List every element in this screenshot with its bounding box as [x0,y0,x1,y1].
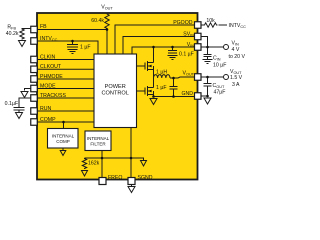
svg-text:POWER: POWER [105,84,126,90]
wire TRACK/SS external [19,98,31,107]
transistor Q2 bottom MOSFET [137,90,146,92]
svg-text:60.4k: 60.4k [91,18,104,24]
pin GND [195,93,202,100]
wire COMP to internal comp box [63,122,65,129]
pin SGND [128,178,135,185]
node: GND 1uF junction [172,95,175,98]
wire FB node down to power control [106,30,108,55]
wire COMP [34,121,94,123]
svg-text:RFB: RFB [7,25,16,31]
terminal VIN [224,45,229,50]
node: COUT gnd junction [206,95,209,98]
ground triangle below 162k [82,171,88,177]
svg-text:0.1 µF: 0.1 µF [179,51,194,57]
node: COMP junction [62,121,65,124]
ground triangle below RFB [19,41,26,47]
pin COMP [31,119,38,126]
svg-text:RUN: RUN [40,106,51,112]
ground triangle below internal comp [60,151,66,156]
svg-text:MODE: MODE [40,83,56,89]
IC body U1 (uModule regulator) [37,13,198,180]
wire PGOOD internal [115,25,197,54]
node A: FB divider junction [106,28,109,31]
svg-text:1 µH: 1 µH [156,70,167,76]
svg-text:CLKOUT: CLKOUT [40,64,62,70]
svg-text:VOUT: VOUT [101,5,113,11]
svg-text:1 µF: 1 µF [80,44,90,50]
transistor Q1 top MOSFET [137,65,146,67]
wire FB pin to node [34,29,107,31]
wire FREQ vertical [101,151,103,178]
svg-text:COMP: COMP [56,139,70,144]
svg-text:47µF: 47µF [214,90,226,96]
pin PGOOD [195,22,202,29]
pin RUN [31,108,38,115]
svg-text:INTERNAL: INTERNAL [87,136,110,141]
ground earth (INTVCC cap) [68,50,78,54]
svg-text:INTVCC: INTVCC [229,23,247,29]
ground triangle below track cap [16,113,23,119]
wire VIN external [201,46,223,48]
resistor 60.4k (FB top divider) [105,13,109,30]
wire MODE [34,88,94,90]
svg-text:CLKIN: CLKIN [40,54,56,60]
wire VOUT external [201,76,223,78]
transistor Q1 body arrow [148,65,152,68]
svg-text:10 µF: 10 µF [213,63,226,69]
node: VIN 0.1uF junction [171,46,174,49]
svg-text:FB: FB [40,24,47,30]
wire INTVCC pin to corner [34,41,98,54]
wire VIN internal [132,47,197,54]
svg-text:GND: GND [181,91,193,97]
wire CLKOUT [34,68,94,70]
svg-text:3 A: 3 A [232,82,240,88]
resistor 10k pull-up [204,23,218,27]
svg-text:COUT: COUT [213,83,225,89]
wire GND rail internal [154,96,198,98]
transistor Q2 body arrow [148,90,152,93]
ground earth (internal 0.1uF) [168,56,178,60]
svg-text:FILTER: FILTER [90,142,106,147]
resistor 162k (freq set) [82,158,86,169]
resistor RFB 40.2k [20,29,31,40]
internal filter block [85,131,111,151]
inductor L1 1uH [154,75,171,78]
pin CLKIN [31,56,38,63]
wire RUN [34,110,94,112]
svg-text:COMP: COMP [40,117,56,123]
node: INTVCC cap junction [71,40,74,43]
svg-text:10k: 10k [206,18,215,24]
wire inductor to VOUT pin [170,77,197,78]
capacitor 1uF (output, internal) [173,78,175,86]
svg-text:4 V: 4 V [232,47,240,53]
ground triangle (COUT/GND) [204,98,211,104]
svg-text:SGND: SGND [138,175,153,181]
wire 10k to INTVCC label [219,24,228,26]
pin FB [31,26,38,33]
wire SGND vertical [130,128,132,178]
svg-text:1.5 V: 1.5 V [230,75,243,81]
pin FREQ [99,178,106,185]
wire SVIN internal [123,37,197,55]
capacitor COUT [207,77,209,83]
svg-text:CONTROL: CONTROL [102,91,129,97]
wire PHMODE [34,78,94,80]
svg-text:PGOOD: PGOOD [173,20,193,26]
node: COUT junction [206,76,209,79]
node: sgnd junction [130,157,133,160]
wire SGND external stub [131,184,133,186]
terminal VOUT [224,75,229,80]
ground triangle internal SGND [141,161,147,167]
node: VIN/FET drain junction [152,46,155,49]
wire SGND branch to internal ground [131,158,144,160]
svg-text:1 µF: 1 µF [156,85,166,91]
svg-text:TRACK/SS: TRACK/SS [40,93,66,99]
pin TRACK/SS [31,95,38,102]
wire CLKIN [34,59,94,61]
svg-text:0.1µF: 0.1µF [5,101,18,107]
pin CLKOUT [31,66,38,73]
power control block [94,54,137,128]
svg-text:VIN: VIN [232,41,240,47]
capacitor CIN [207,47,209,54]
capacitor 1uF (INTVCC bypass) [72,41,74,44]
pin SVIN [195,33,202,40]
wire SVIN external jog [201,37,208,48]
ground triangle below SGND pin [128,187,135,193]
node: freq junction [101,157,104,160]
svg-text:to 20 V: to 20 V [229,54,246,60]
ground earth (CIN) [203,60,213,64]
node: SVIN/VIN junction [206,46,209,49]
wire internal comp box to ground [62,148,64,150]
pin INTVCC [31,38,38,45]
internal comp block [48,129,79,149]
pin VOUT [195,74,202,81]
svg-text:40.2k: 40.2k [6,31,19,37]
wire freq rail [85,157,132,159]
wire PGOOD external [201,24,204,26]
node: VOUT 1uF junction [172,77,175,80]
wire MODE external to ground [25,89,31,91]
wire TRACK/SS [34,97,94,99]
svg-text:FREQ: FREQ [108,175,122,181]
ground triangle below bottom FET [150,99,157,105]
pin MODE [31,85,38,92]
svg-text:PHMODE: PHMODE [40,74,63,80]
pin VIN [195,44,202,51]
pin PHMODE [31,76,38,83]
wire GND external [201,95,208,97]
node: GND fet junction [152,95,155,98]
ground triangle below MODE [21,92,28,98]
svg-text:162k: 162k [88,160,100,166]
capacitor 0.1uF internal VIN bypass [172,47,174,50]
svg-text:INTERNAL: INTERNAL [52,133,75,138]
svg-text:CIN: CIN [213,56,221,62]
capacitor 0.1uF (track/ss soft-start) [14,108,25,111]
